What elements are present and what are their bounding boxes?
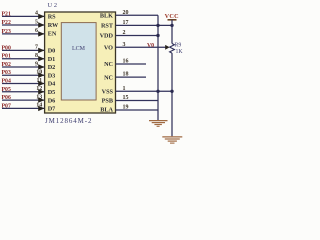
ground symbol left	[149, 110, 168, 126]
wire P07 to pin 14	[2, 107, 45, 109]
junction VCC-RST	[170, 24, 173, 27]
svg-text:RW: RW	[48, 22, 59, 29]
svg-text:LCM: LCM	[72, 46, 86, 52]
svg-text:D7: D7	[48, 106, 56, 113]
svg-text:D0: D0	[48, 48, 56, 55]
svg-text:EN: EN	[48, 31, 57, 38]
wire P00 to pin 7	[2, 49, 45, 51]
svg-text:D6: D6	[48, 97, 56, 104]
power symbol VCC	[165, 13, 179, 25]
svg-text:D1: D1	[48, 56, 56, 63]
pin 11 arrowhead	[38, 81, 44, 86]
wire pin 15 PSB	[116, 100, 159, 102]
svg-text:JM12864M-2: JM12864M-2	[45, 117, 92, 125]
svg-text:RST: RST	[101, 23, 114, 30]
svg-text:BLK: BLK	[100, 13, 113, 20]
svg-text:D3: D3	[48, 72, 56, 79]
svg-text:D5: D5	[48, 89, 56, 96]
wire pin 16 NC stub	[116, 63, 147, 65]
wire P03 to pin 10	[2, 74, 45, 76]
svg-text:NC: NC	[104, 61, 113, 68]
svg-text:V0: V0	[147, 43, 154, 49]
pin 5 arrowhead	[38, 22, 44, 27]
wire P02 to pin 9	[2, 66, 45, 68]
junction VSS-rail	[170, 90, 173, 93]
junction VSS-bus	[156, 90, 159, 93]
svg-text:RS: RS	[48, 14, 56, 21]
svg-text:8: 8	[35, 53, 38, 59]
pin 6 arrowhead	[38, 31, 44, 36]
wiper arrowhead into R9	[165, 45, 169, 50]
wire pin 1 VSS to R9 bottom rail	[116, 90, 173, 92]
resistor R9 zigzag	[170, 44, 175, 54]
svg-text:9: 9	[35, 61, 38, 67]
svg-text:PSB: PSB	[102, 98, 113, 105]
junction VDD-bus	[156, 34, 159, 37]
wire pin 3 VO	[116, 46, 167, 48]
svg-text:1K: 1K	[176, 49, 184, 55]
wire P04 to pin 11	[2, 83, 45, 85]
wire P01 to pin 8	[2, 58, 45, 60]
wire pin 18 NC stub	[116, 76, 147, 78]
wire VCC rail down to R9	[171, 25, 173, 43]
wire pin 17 RST to VCC	[116, 24, 173, 26]
svg-text:BLA: BLA	[100, 107, 113, 114]
wire P21 to pin 4	[2, 15, 45, 17]
svg-text:R9: R9	[175, 42, 182, 48]
svg-text:D2: D2	[48, 64, 56, 71]
pin 10 arrowhead	[38, 73, 44, 78]
pin 12 arrowhead	[38, 89, 44, 94]
svg-text:5: 5	[35, 19, 38, 25]
wire pin 2 VDD	[116, 35, 159, 37]
svg-text:7: 7	[35, 45, 38, 51]
svg-text:VDD: VDD	[100, 33, 114, 40]
vertical bus wire x158	[157, 15, 159, 110]
svg-text:D4: D4	[48, 81, 56, 88]
junction RST-bus	[156, 24, 159, 27]
pin 7 arrowhead	[38, 48, 44, 53]
pin 4 arrowhead	[38, 14, 44, 19]
svg-text:6: 6	[35, 28, 38, 34]
IC U2 LCD module body	[45, 12, 116, 113]
wire P05 to pin 12	[2, 91, 45, 93]
svg-text:4: 4	[35, 11, 38, 17]
svg-text:VCC: VCC	[165, 13, 179, 20]
pin 14 arrowhead	[38, 106, 44, 111]
svg-text:VSS: VSS	[102, 89, 114, 96]
LCM display sub-block	[61, 23, 96, 100]
pin 13 arrowhead	[38, 97, 44, 102]
ground symbol right	[162, 137, 182, 143]
wire pin 20 BLK	[116, 14, 159, 16]
wire R9 bottom to ground	[171, 53, 173, 136]
wire P23 to pin 6	[2, 33, 45, 35]
wire P22 to pin 5	[2, 24, 45, 26]
wire pin 19 BLA	[116, 109, 159, 111]
pin 9 arrowhead	[38, 64, 44, 69]
svg-text:NC: NC	[104, 74, 113, 81]
pin 8 arrowhead	[38, 56, 44, 61]
wire P06 to pin 13	[2, 99, 45, 101]
svg-text:VO: VO	[104, 45, 113, 52]
